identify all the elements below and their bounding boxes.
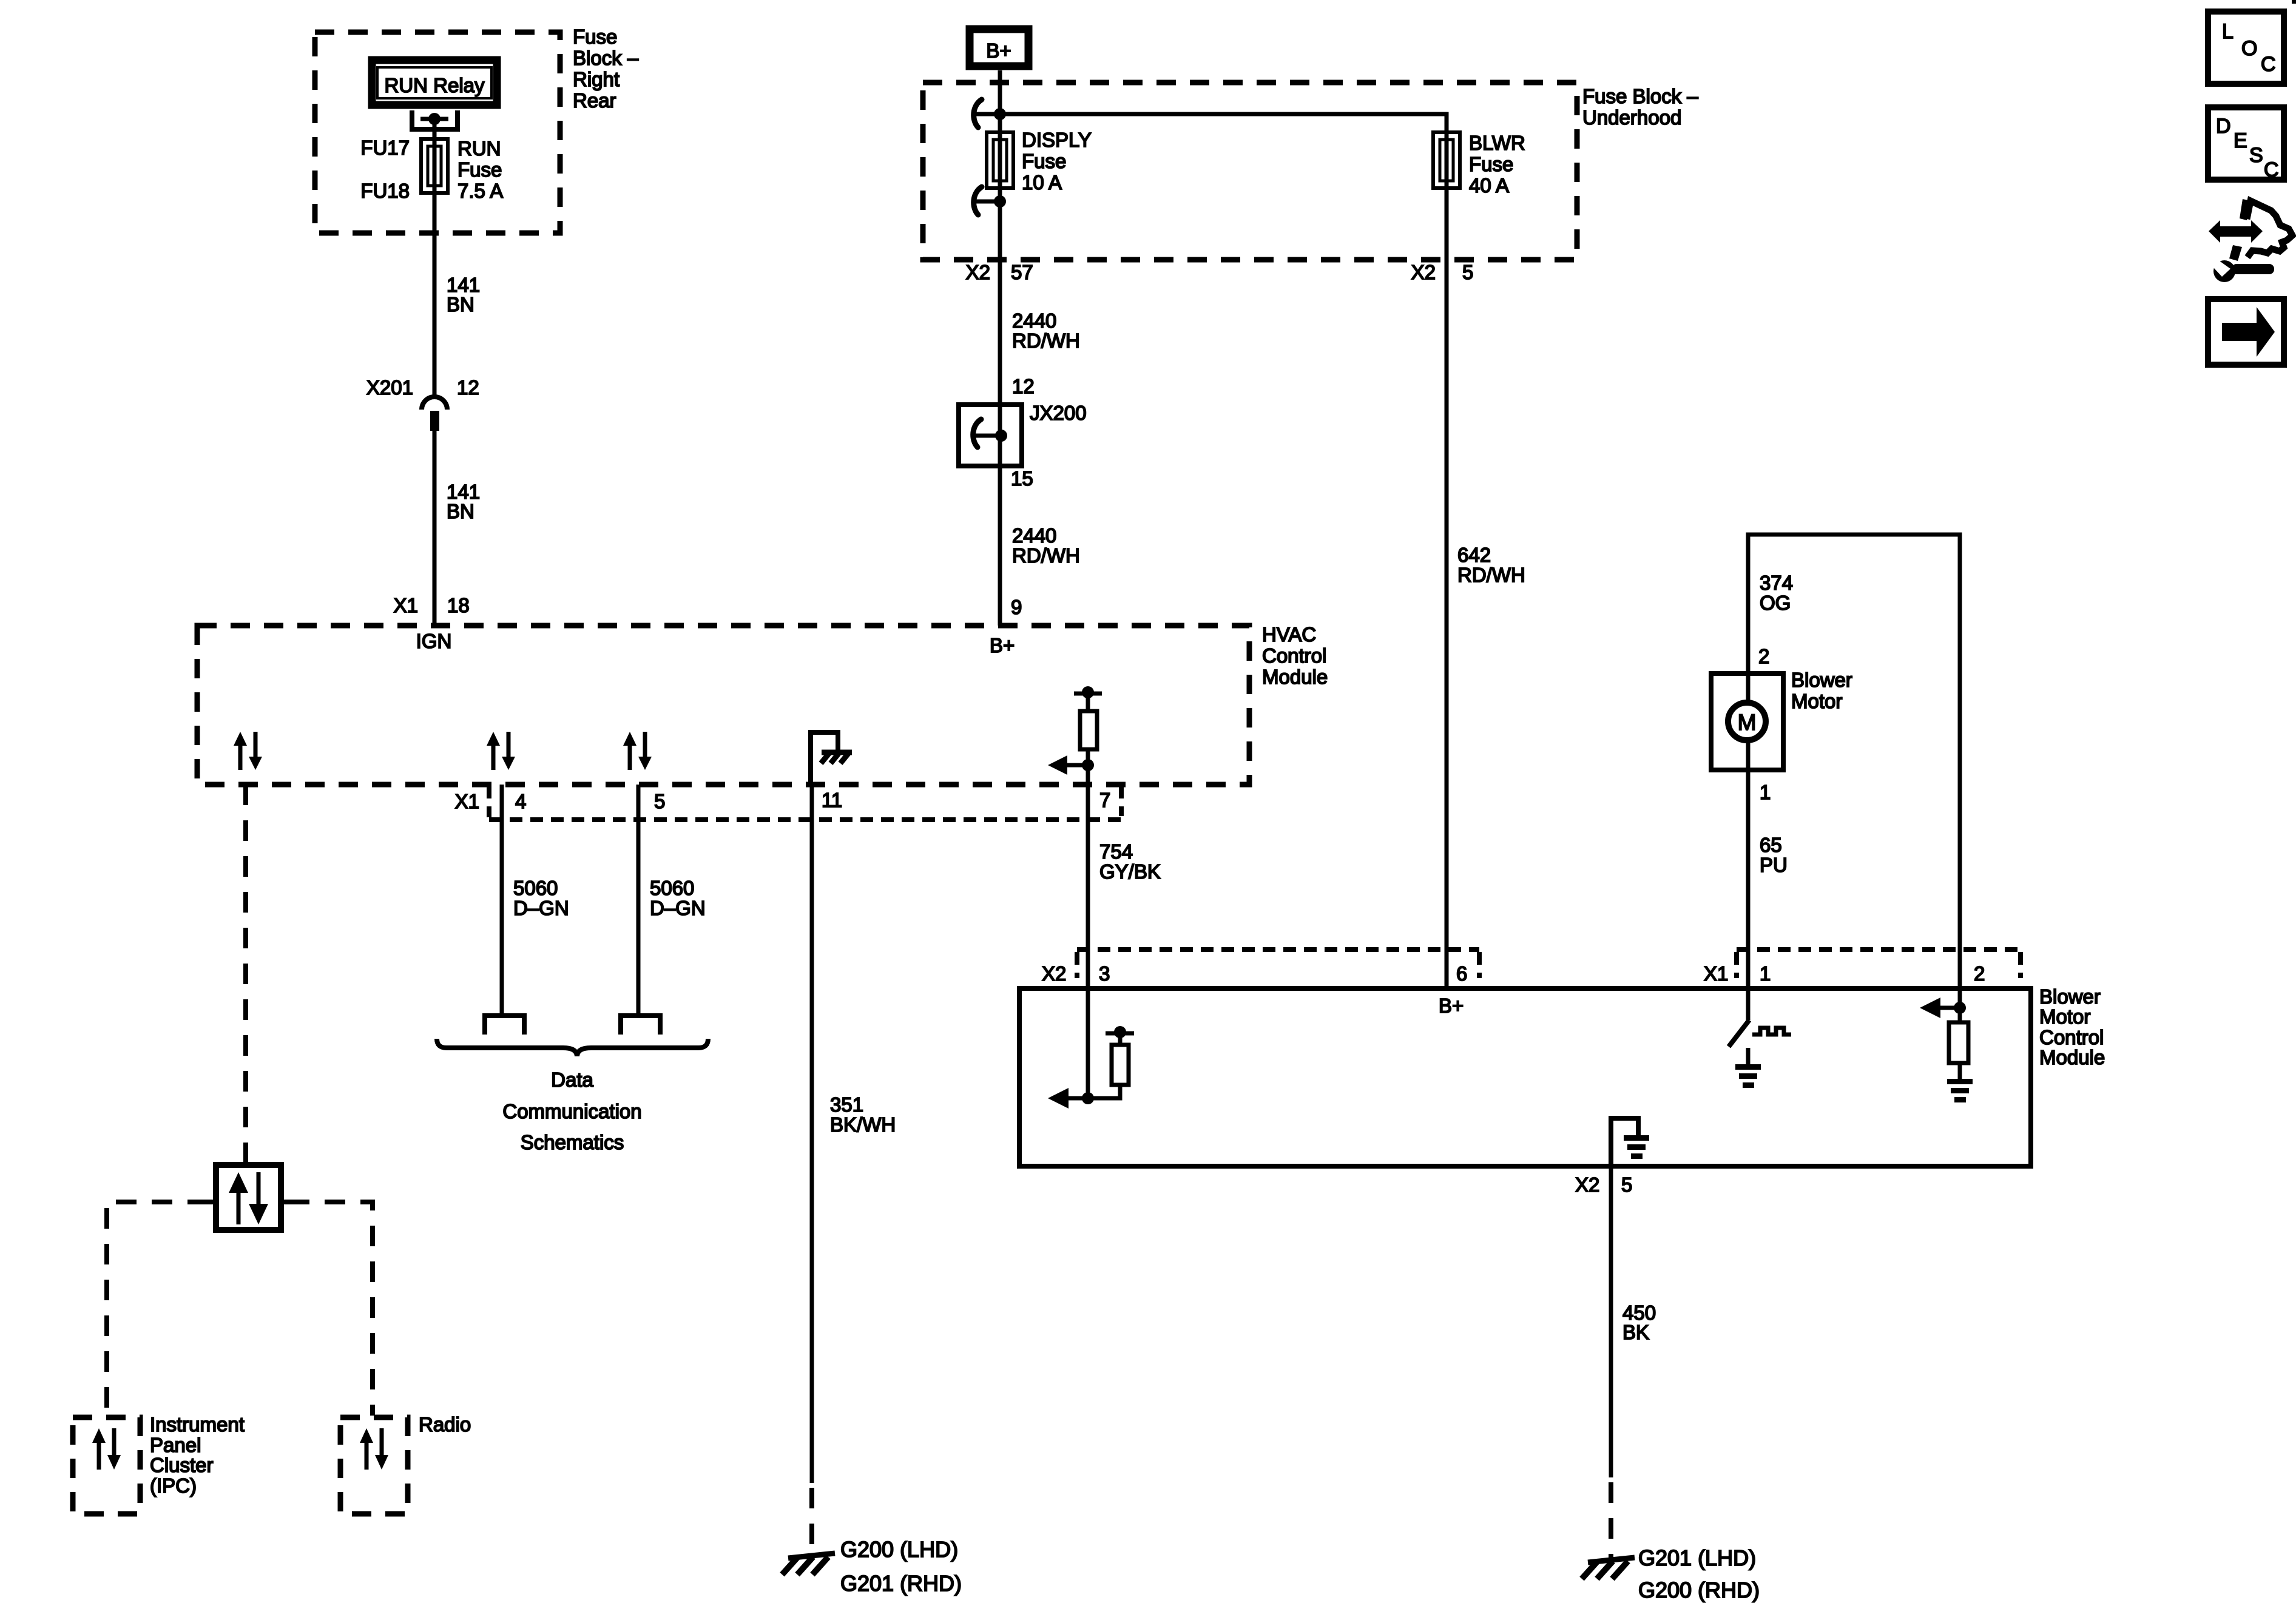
svg-text:X2: X2 (966, 261, 990, 283)
wire through JX200 (998, 405, 1002, 466)
svg-text:7: 7 (1099, 789, 1110, 811)
svg-text:642: 642 (1457, 544, 1491, 566)
svg-text:57: 57 (1011, 261, 1033, 283)
svg-text:DISPLY: DISPLY (1022, 129, 1092, 151)
HVAC control module dashed box (197, 626, 1249, 785)
svg-text:BN: BN (447, 293, 474, 316)
wire 351 BK/WH (pin 11 ground wire) (810, 785, 814, 1483)
wire label 642 RD/WH (1457, 544, 1525, 586)
svg-text:X2: X2 (1411, 261, 1436, 283)
svg-text:Motor: Motor (2039, 1005, 2090, 1028)
svg-text:65: 65 (1760, 834, 1782, 856)
wire 5060 D-GN (pin 5) (636, 785, 641, 1013)
off-page connector staple (pin 5) (621, 1016, 660, 1035)
svg-text:RUN Relay: RUN Relay (384, 74, 485, 96)
blower motor control module box (1019, 988, 2031, 1166)
svg-text:JX200: JX200 (1030, 402, 1087, 424)
svg-text:BN: BN (447, 500, 474, 522)
wire 374 OG loop (motor feed) (1748, 535, 1960, 988)
svg-text:X1: X1 (394, 594, 418, 616)
svg-text:O: O (2241, 37, 2257, 60)
wire 5060 D-GN (pin 4) (500, 785, 504, 1013)
ground G200/G201 chassis symbol (left) (782, 1553, 835, 1575)
svg-text:5060: 5060 (650, 877, 694, 899)
svg-text:Panel: Panel (150, 1434, 201, 1456)
svg-text:Instrument: Instrument (150, 1413, 245, 1436)
wire label 374 OG (1760, 572, 1793, 614)
svg-text:12: 12 (1012, 375, 1035, 397)
svg-text:1: 1 (1760, 781, 1771, 803)
wire 642 RD/WH (1445, 260, 1449, 988)
svg-text:Fuse: Fuse (458, 158, 502, 181)
internal sense resistor with arrow (pin 3) (1048, 988, 1134, 1109)
svg-text:1: 1 (1760, 962, 1771, 985)
wire label 2440 RD/WH (upper) (1012, 309, 1080, 352)
wire below DISPLY fuse (998, 188, 1002, 260)
svg-text:10 A: 10 A (1022, 171, 1062, 194)
icon LOC box (2208, 12, 2284, 84)
label RUN Fuse 7.5 A (458, 137, 503, 202)
svg-text:Cluster: Cluster (150, 1454, 214, 1476)
wire 141 BN upper segment (433, 193, 437, 395)
svg-text:Rear: Rear (573, 89, 616, 112)
svg-text:FU17: FU17 (360, 137, 410, 159)
svg-text:Control: Control (2039, 1026, 2104, 1048)
svg-text:X2: X2 (1575, 1173, 1599, 1196)
label Instrument Panel Cluster (IPC) (150, 1413, 245, 1497)
svg-text:Schematics: Schematics (521, 1131, 624, 1153)
svg-text:X1: X1 (1704, 962, 1728, 985)
serial data arrow pair (Radio) (360, 1428, 388, 1470)
svg-text:M: M (1738, 710, 1757, 735)
svg-text:6: 6 (1456, 962, 1467, 985)
icon hand with double arrow and wrench (2209, 199, 2292, 282)
dashed wire end to G200 (809, 1488, 814, 1557)
svg-text:RD/WH: RD/WH (1457, 564, 1525, 586)
B+ power symbol box (970, 29, 1028, 66)
X1 connector fine dashed line (HVAC bottom) (489, 786, 1121, 820)
page scan artifact (top right) (2292, 0, 2296, 4)
svg-text:5: 5 (654, 790, 665, 812)
X2 connector dashed line (BMCM top left) (1077, 950, 1479, 978)
internal resistor to ground with arrow (pin 2) (1920, 988, 1973, 1102)
label Data Communication Schematics (502, 1068, 641, 1153)
svg-text:Underhood: Underhood (1582, 106, 1681, 129)
svg-text:754: 754 (1099, 840, 1133, 863)
svg-text:2: 2 (1758, 645, 1769, 667)
wire 65 PU (1746, 770, 1751, 988)
internal resistor with feedback arrow (pin 7) (1048, 686, 1102, 785)
svg-text:Block –: Block – (573, 47, 639, 69)
svg-text:GY/BK: GY/BK (1099, 860, 1161, 883)
fuse BLWR 40A (1433, 132, 1460, 188)
label G201 (LHD) / G200 (RHD) (1638, 1545, 1760, 1602)
svg-text:Communication: Communication (502, 1100, 641, 1122)
wire label 754 GY/BK (1099, 840, 1161, 883)
node: relay output junction (420, 113, 448, 125)
svg-text:D: D (2216, 115, 2231, 138)
svg-text:B+: B+ (986, 39, 1011, 62)
svg-text:Blower: Blower (2039, 985, 2101, 1008)
svg-text:G201 (RHD): G201 (RHD) (840, 1571, 962, 1596)
label DISPLY Fuse 10 A (1022, 129, 1092, 194)
svg-text:FU18: FU18 (360, 180, 410, 202)
junction block JX200 (959, 405, 1022, 466)
clip connector above DISPLY fuse (974, 100, 982, 127)
svg-text:Radio: Radio (419, 1413, 471, 1436)
dashed wire to radio (289, 1202, 373, 1416)
svg-text:L: L (2222, 20, 2234, 43)
node: B+ distribution junction (976, 108, 1006, 120)
label X2 pin 57 (966, 261, 1033, 283)
wire B+ bus to BLWR fuse (1000, 114, 1447, 132)
icon forward arrow box (2208, 299, 2284, 365)
svg-text:40 A: 40 A (1469, 174, 1509, 197)
svg-text:BLWR: BLWR (1469, 132, 1525, 154)
wire B+ into fuse block (998, 70, 1002, 135)
svg-text:11: 11 (822, 789, 842, 811)
svg-text:Fuse Block –: Fuse Block – (1582, 85, 1698, 107)
svg-text:5: 5 (1621, 1173, 1632, 1196)
wire label 351 BK/WH (830, 1093, 896, 1136)
serial data node box (216, 1165, 281, 1230)
fuse block underhood dashed box (923, 83, 1577, 260)
wire label 5060 D-GN (pin 5) (650, 877, 706, 919)
svg-text:E: E (2234, 129, 2247, 152)
svg-text:Fuse: Fuse (1469, 153, 1513, 175)
svg-text:2440: 2440 (1012, 524, 1056, 547)
svg-text:D–GN: D–GN (650, 897, 706, 919)
fuse FU17/FU18 RUN Fuse 7.5 A (421, 139, 448, 193)
svg-text:5060: 5060 (513, 877, 558, 899)
internal switch with PWM drive (pin 1) (1729, 988, 1791, 1088)
svg-text:C: C (2261, 53, 2276, 76)
serial data arrow pair (internal, pin 5) (623, 732, 652, 770)
svg-text:3: 3 (1099, 962, 1110, 985)
X1 connector dashed line (BMCM top right) (1737, 950, 2021, 978)
wire label 450 BK (1622, 1301, 1656, 1343)
svg-text:G200 (RHD): G200 (RHD) (1638, 1578, 1760, 1602)
icon DESC box (2208, 107, 2284, 181)
wire BLWR fuse to block edge (1445, 188, 1449, 260)
svg-text:X2: X2 (1042, 962, 1066, 985)
label X2 pin 5 (1411, 261, 1474, 283)
ground G201/G200 chassis symbol (right) (1582, 1558, 1635, 1579)
svg-text:RD/WH: RD/WH (1012, 329, 1080, 352)
wire 2440 RD/WH lower (998, 466, 1002, 626)
off-page connector staple (pin 4) (485, 1016, 524, 1035)
brace for data communication schematics (437, 1039, 708, 1056)
dashed wire end to G201 (1609, 1482, 1613, 1559)
svg-text:D–GN: D–GN (513, 897, 569, 919)
svg-text:(IPC): (IPC) (150, 1474, 197, 1497)
svg-text:2440: 2440 (1012, 309, 1056, 332)
svg-text:15: 15 (1011, 467, 1033, 490)
dashed wire to instrument panel cluster (107, 1202, 208, 1416)
svg-text:Right: Right (573, 68, 620, 90)
svg-text:Fuse: Fuse (1022, 150, 1066, 172)
HVAC control module label (1262, 623, 1328, 688)
relay K: RUN Relay box (372, 60, 497, 105)
internal ground hook (X2 pin 5) (1611, 1118, 1649, 1166)
svg-text:IGN: IGN (416, 630, 452, 652)
svg-text:S: S (2249, 144, 2263, 167)
internal ground symbol (pin 11) (811, 732, 852, 785)
svg-text:Data: Data (551, 1068, 593, 1091)
dashed serial data wire (to splice box) (243, 785, 248, 1165)
label BLWR Fuse 40 A (1469, 132, 1525, 197)
svg-text:Module: Module (2039, 1046, 2105, 1068)
clip connector below DISPLY fuse (974, 187, 982, 215)
wire label 65 PU (1760, 834, 1788, 876)
serial data arrow pair (internal, pin 4) (487, 732, 515, 770)
svg-text:Module: Module (1262, 666, 1328, 688)
svg-text:X1: X1 (455, 790, 479, 812)
wire label 141 BN (upper) (447, 274, 480, 316)
blower motor box with M (1711, 673, 1783, 770)
svg-text:7.5 A: 7.5 A (458, 180, 503, 202)
svg-text:18: 18 (447, 594, 470, 616)
svg-text:351: 351 (830, 1093, 863, 1116)
svg-text:BK: BK (1622, 1321, 1649, 1343)
svg-text:RD/WH: RD/WH (1012, 544, 1080, 567)
wire 450 BK (1609, 1166, 1613, 1477)
svg-text:4: 4 (515, 790, 526, 812)
svg-text:Control: Control (1262, 644, 1326, 667)
svg-text:C: C (2264, 158, 2279, 181)
fuse block right rear dashed box (315, 32, 560, 233)
svg-text:BK/WH: BK/WH (830, 1113, 896, 1136)
svg-text:X201: X201 (366, 376, 413, 399)
svg-text:374: 374 (1760, 572, 1793, 594)
svg-text:Fuse: Fuse (573, 25, 617, 48)
connector X201 pin 12 inline symbol (422, 397, 447, 431)
fuse block underhood label (1582, 85, 1698, 129)
wire label 2440 RD/WH (lower) (1012, 524, 1080, 567)
svg-text:B+: B+ (990, 634, 1015, 657)
label X1 pin 18 (394, 594, 470, 616)
label Blower Motor Control Module (2039, 985, 2105, 1068)
label Blower Motor (1791, 669, 1852, 712)
serial data arrow pair (IPC) (92, 1428, 121, 1470)
wire relay to fuse (433, 119, 437, 141)
wire 2440 RD/WH upper (998, 260, 1002, 405)
node: junction below DISPLY fuse (976, 195, 1006, 208)
svg-text:HVAC: HVAC (1262, 623, 1316, 646)
svg-text:G201 (LHD): G201 (LHD) (1638, 1545, 1756, 1570)
svg-text:9: 9 (1011, 596, 1022, 618)
svg-text:Blower: Blower (1791, 669, 1852, 691)
svg-text:Motor: Motor (1791, 690, 1842, 712)
wire pin 6 internal stub (1445, 988, 1449, 991)
wire label 5060 D-GN (pin 4) (513, 877, 569, 919)
svg-text:OG: OG (1760, 592, 1791, 614)
svg-text:12: 12 (457, 376, 479, 399)
serial data arrow pair (internal, left) (234, 732, 262, 770)
svg-text:G200 (LHD): G200 (LHD) (840, 1537, 958, 1562)
relay contact terminal bracket (412, 110, 458, 129)
wire 754 GY/BK (1086, 785, 1090, 988)
wire 141 BN lower segment (433, 430, 437, 626)
fuse DISPLY 10A (987, 132, 1013, 188)
instrument panel cluster dashed box (73, 1417, 140, 1514)
svg-text:PU: PU (1760, 854, 1788, 876)
svg-text:5: 5 (1462, 261, 1473, 283)
fuse block right rear label (573, 25, 639, 112)
radio dashed box (340, 1417, 408, 1514)
wire stubs at serial data node box (208, 1200, 289, 1204)
svg-text:B+: B+ (1439, 994, 1464, 1017)
svg-text:RUN: RUN (458, 137, 501, 160)
wire label 141 BN (lower) (447, 481, 480, 522)
svg-text:2: 2 (1974, 962, 1985, 985)
label G200 (LHD) / G201 (RHD) (840, 1537, 962, 1596)
